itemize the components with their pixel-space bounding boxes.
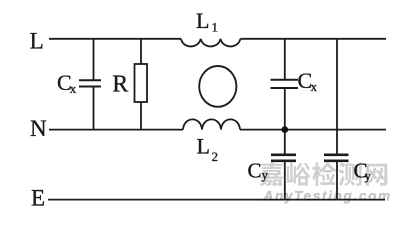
wire Cx2 bottom lead to N <box>284 89 286 130</box>
svg-text:L: L <box>197 134 210 159</box>
svg-text:x: x <box>70 81 77 96</box>
capacitor Cy1 plates <box>271 153 296 156</box>
wire N line right segment <box>240 129 386 131</box>
svg-text:R: R <box>112 71 128 97</box>
wire Cy1 bottom lead to E <box>284 162 286 200</box>
svg-text:L: L <box>196 8 209 33</box>
svg-text:x: x <box>311 79 318 94</box>
svg-text:E: E <box>31 185 45 210</box>
wire E line <box>48 199 385 201</box>
capacitor Cx2 plates <box>271 79 299 81</box>
resistor R body <box>135 64 148 102</box>
wire Cx1 bottom lead <box>93 88 95 130</box>
wire L line left segment <box>49 38 181 40</box>
wire R bottom lead <box>140 102 142 130</box>
wire Cy2 bottom lead to E <box>336 162 338 200</box>
wire N line left segment <box>49 129 183 131</box>
transformer core circle <box>199 66 236 107</box>
wire Cx1 top lead <box>93 39 95 80</box>
watermark 嘉峪检测网 AnyTesting.com <box>260 162 392 203</box>
wire Cy2 top lead from L <box>336 39 338 154</box>
wire L line right segment <box>240 38 386 40</box>
svg-text:AnyTesting.com: AnyTesting.com <box>263 188 392 203</box>
inductor L2 <box>183 119 240 129</box>
wire Cy1 lead N to plate <box>284 130 286 154</box>
svg-text:L: L <box>30 29 44 54</box>
capacitor Cy2 plates <box>324 153 349 156</box>
inductor L1 <box>181 39 240 47</box>
wire R top lead <box>140 39 142 64</box>
wire Cx2 top lead <box>284 39 286 79</box>
capacitor Cx1 plates <box>79 79 101 81</box>
svg-text:2: 2 <box>212 149 219 164</box>
svg-text:C: C <box>248 159 262 183</box>
junction node dot on N line <box>281 126 288 133</box>
svg-text:1: 1 <box>212 20 219 35</box>
svg-text:N: N <box>30 116 47 141</box>
